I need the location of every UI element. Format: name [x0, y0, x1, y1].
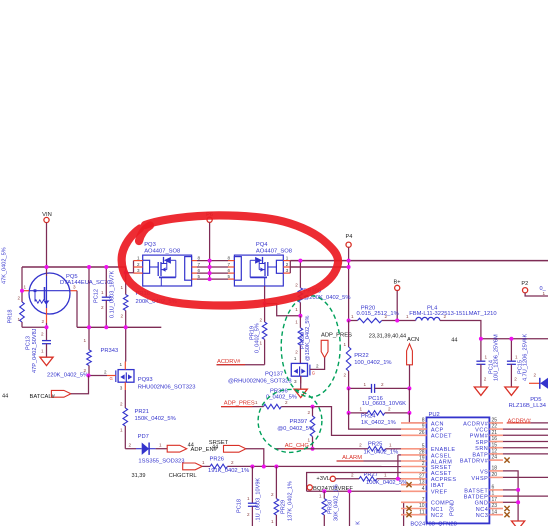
wire to ACP pin — [349, 413, 401, 429]
wire second bus segment — [290, 266, 348, 268]
svg-text:PR29: PR29 — [281, 500, 287, 514]
svg-text:7: 7 — [422, 497, 425, 503]
svg-text:1: 1 — [384, 472, 387, 477]
svg-text:1: 1 — [307, 438, 310, 443]
svg-text:PD7: PD7 — [138, 434, 149, 440]
svg-text:2: 2 — [17, 296, 20, 301]
wire P2 to edge — [525, 293, 548, 296]
svg-text:RHU002N06_SOT323: RHU002N06_SOT323 — [138, 385, 196, 391]
svg-text:8: 8 — [228, 255, 231, 260]
svg-text:22: 22 — [492, 424, 498, 430]
svg-text:2: 2 — [351, 472, 354, 477]
svg-text:PU2: PU2 — [429, 412, 440, 418]
connector CHGCTRL — [183, 463, 203, 470]
svg-text:2: 2 — [307, 410, 310, 415]
pin stubs PQ3 right and drain wires — [192, 260, 197, 262]
svg-text:ACN: ACN — [407, 337, 419, 343]
svg-text:1: 1 — [351, 314, 354, 319]
svg-text:8: 8 — [198, 255, 201, 260]
resistor PR343 — [88, 267, 90, 350]
svg-text:2: 2 — [295, 283, 298, 288]
svg-text:PR397: PR397 — [290, 419, 308, 425]
svg-text:.1U_0603_10V9K: .1U_0603_10V9K — [256, 478, 262, 522]
wire PQ4 source vertical — [289, 261, 291, 274]
wire VREF row — [307, 490, 401, 492]
wire PQ93 gate node — [89, 375, 108, 377]
svg-text:2: 2 — [104, 370, 107, 375]
svg-text:191K_0402_1%: 191K_0402_1% — [208, 468, 249, 474]
svg-text:BATDRV#: BATDRV# — [460, 459, 489, 465]
wire SRP out — [503, 441, 548, 443]
green highlight ellipse upper — [281, 296, 340, 397]
svg-text:P2: P2 — [521, 281, 528, 287]
connector ADP_EN# — [167, 445, 187, 452]
svg-text:1: 1 — [515, 355, 518, 360]
MOSFET PQ3 AO4407_SO8 — [143, 255, 192, 286]
capacitor PC15 — [510, 339, 512, 361]
wire BATCAL# to gate node — [71, 376, 89, 394]
svg-text:0.1U_0603_16V7K: 0.1U_0603_16V7K — [110, 270, 116, 318]
svg-text:PQ3: PQ3 — [144, 242, 156, 248]
svg-text:5: 5 — [228, 274, 231, 279]
wire output bus right — [290, 260, 548, 262]
svg-text:2: 2 — [381, 382, 384, 387]
wire ACSEL riser — [397, 455, 399, 479]
svg-text:DTA144EUA_SC70: DTA144EUA_SC70 — [60, 280, 110, 286]
svg-text:20: 20 — [492, 472, 498, 478]
svg-text:28: 28 — [419, 450, 425, 456]
resistor PR397 — [312, 407, 314, 416]
svg-text:1: 1 — [247, 496, 250, 501]
pin stubs PQ4 right — [283, 260, 290, 262]
diode PD5 RLZ16B_LL34 — [529, 382, 540, 384]
svg-text:2: 2 — [137, 262, 140, 267]
svg-text:PR21: PR21 — [135, 409, 150, 415]
svg-text:VREF: VREF — [431, 490, 448, 496]
svg-text:1: 1 — [295, 307, 298, 312]
svg-text:ACSEL: ACSEL — [431, 453, 452, 459]
svg-text:3: 3 — [294, 379, 297, 384]
svg-text:44: 44 — [451, 338, 457, 344]
svg-text:9: 9 — [422, 424, 425, 430]
wire SRN out — [503, 447, 548, 449]
svg-text:1: 1 — [24, 285, 27, 290]
svg-text:1K_0402_1%: 1K_0402_1% — [361, 420, 396, 426]
svg-text:220K_0402_5%: 220K_0402_5% — [47, 373, 88, 379]
svg-text:PQ5: PQ5 — [66, 274, 78, 280]
svg-text:7: 7 — [228, 262, 231, 267]
svg-text:17: 17 — [492, 497, 498, 503]
svg-text:ADP_PRES: ADP_PRES — [224, 401, 255, 407]
svg-text:1: 1 — [271, 519, 274, 524]
svg-text:PR24: PR24 — [361, 414, 376, 420]
svg-text:2: 2 — [231, 460, 234, 465]
svg-text:ALARM: ALARM — [342, 455, 362, 461]
svg-text:ACP: ACP — [431, 428, 444, 434]
svg-text:PQ137: PQ137 — [265, 371, 283, 377]
svg-text:2: 2 — [271, 492, 274, 497]
wire SRSET to CHGCTRL rail — [246, 449, 264, 467]
svg-text:6: 6 — [228, 268, 231, 273]
resistor PR21 — [124, 390, 126, 408]
svg-text:K: K — [356, 521, 362, 525]
wire PQ137 source to ground — [300, 376, 302, 389]
svg-text:2: 2 — [533, 373, 536, 378]
net label ACDRV# at pin 25 — [507, 422, 531, 424]
svg-text:10: 10 — [419, 503, 425, 509]
wire VIN to bus — [46, 223, 48, 267]
resistor PR25 — [313, 448, 368, 450]
svg-text:COMP: COMP — [431, 501, 450, 507]
svg-text:2: 2 — [120, 402, 123, 407]
wire VREF branch to bottom component — [349, 491, 351, 526]
svg-text:24: 24 — [492, 455, 498, 461]
svg-text:2: 2 — [247, 512, 250, 517]
svg-text:4.7U_1206_25V6K: 4.7U_1206_25V6K — [523, 333, 529, 381]
resistor PR26 — [202, 465, 210, 467]
wire P4 drop — [348, 247, 350, 320]
svg-text:1: 1 — [286, 255, 289, 260]
svg-text:CHGCTRL: CHGCTRL — [169, 473, 198, 479]
svg-text:0_0402_5%: 0_0402_5% — [266, 394, 297, 400]
svg-text:PC13: PC13 — [26, 336, 32, 350]
wire P6 to drain rows — [209, 222, 211, 279]
ground below PC14 — [474, 387, 487, 395]
svg-text:18: 18 — [492, 466, 498, 472]
svg-text:1: 1 — [83, 338, 86, 343]
svg-text:1SS355_SOD323: 1SS355_SOD323 — [138, 459, 184, 465]
resistor PR24 — [348, 388, 350, 413]
wire PQ3 source pins vertical — [133, 261, 135, 274]
svg-text:1: 1 — [295, 320, 298, 325]
svg-text:ACDRV#: ACDRV# — [217, 359, 241, 365]
wire PQ4 gate jog — [264, 286, 266, 304]
svg-text:NC3: NC3 — [476, 513, 489, 519]
wire ADP_PRES to PQ137 gate — [310, 358, 325, 370]
svg-text:25: 25 — [492, 418, 498, 424]
wire BATP out — [503, 453, 548, 455]
svg-text:1: 1 — [359, 407, 362, 412]
svg-text:44: 44 — [212, 445, 218, 451]
capacitor PC16 — [349, 387, 372, 389]
pin stubs PQ3 left — [134, 260, 143, 262]
resistor PR398 — [299, 261, 301, 288]
svg-text:FBM-L11-322513-151LMAT_1210: FBM-L11-322513-151LMAT_1210 — [409, 311, 496, 317]
svg-text:47K_0402_5%: 47K_0402_5% — [2, 247, 8, 284]
svg-text:11: 11 — [419, 509, 424, 515]
green highlight ellipse lower — [258, 389, 322, 452]
MOSFET PQ4 AO4407_SO8 — [234, 255, 283, 286]
svg-text:NC1: NC1 — [431, 507, 444, 513]
IC left pin stubs — [401, 422, 427, 424]
svg-text:AO4407_SO8: AO4407_SO8 — [256, 248, 292, 254]
svg-text:2: 2 — [359, 442, 362, 447]
capacitor PC13 — [46, 327, 48, 340]
svg-text:21: 21 — [492, 430, 498, 436]
svg-text:137K_0402_1%: 137K_0402_1% — [288, 481, 294, 521]
connector BATCAL# — [51, 390, 71, 397]
transistor PQ93 RHU002N06_SOT323 — [107, 362, 134, 391]
svg-text:1: 1 — [492, 491, 495, 497]
wire PQ5 collector to lower rail — [76, 291, 78, 328]
svg-text:2: 2 — [388, 407, 391, 412]
transistor PQ5 DTA144EUA_SC70 — [22, 267, 77, 327]
svg-text:PR22: PR22 — [354, 353, 369, 359]
svg-text:8: 8 — [422, 418, 425, 424]
svg-text:13: 13 — [419, 479, 425, 485]
svg-text:VCC: VCC — [475, 428, 488, 434]
wire ACSET from divider — [307, 473, 401, 492]
svg-text:SRP: SRP — [475, 440, 488, 446]
wire lower rail — [77, 326, 161, 328]
wire bus jog to PQ3 pin3 row — [126, 267, 134, 273]
svg-text:14: 14 — [492, 509, 498, 515]
svg-text:2: 2 — [101, 305, 104, 310]
svg-text:2: 2 — [316, 363, 319, 368]
svg-text:P4: P4 — [346, 234, 353, 240]
svg-text:VS: VS — [480, 469, 488, 475]
svg-text:23: 23 — [492, 503, 498, 509]
net label AC_CHG and wire to ENABLE — [275, 448, 312, 450]
svg-text:SRN: SRN — [475, 446, 488, 452]
ground below PC13 — [40, 357, 53, 365]
ground below PU2 — [512, 521, 525, 526]
svg-text:BATP: BATP — [472, 452, 488, 458]
node BQ24703VREF terminal — [307, 485, 312, 490]
svg-text:G: G — [312, 371, 315, 376]
wire to ACN pin — [409, 413, 426, 423]
wire PWM# out — [503, 434, 548, 436]
resistor PR399 — [299, 316, 301, 328]
svg-text:VHSP: VHSP — [471, 476, 488, 482]
svg-text:PWM#: PWM# — [470, 434, 489, 440]
wire VS BATSET GND to ground — [503, 471, 518, 521]
svg-text:AO4407_SO8: AO4407_SO8 — [144, 248, 180, 254]
ground below PC15 — [505, 387, 518, 395]
svg-text:G: G — [110, 376, 113, 381]
svg-text:IBAT: IBAT — [431, 483, 445, 489]
svg-text:1: 1 — [255, 400, 258, 405]
svg-text:@RHU002N06_SOT323: @RHU002N06_SOT323 — [228, 379, 292, 385]
svg-text:ACDET: ACDET — [431, 434, 452, 440]
inductor PL4 FBM-L11 — [416, 317, 440, 320]
svg-text:150K_0402_5%: 150K_0402_5% — [135, 416, 176, 422]
svg-text:1: 1 — [119, 362, 122, 367]
svg-text:ACDRV#: ACDRV# — [463, 421, 489, 427]
svg-text:PGND: PGND — [450, 500, 456, 516]
svg-text:3: 3 — [120, 386, 123, 391]
no-connect X marks — [406, 482, 411, 487]
svg-text:1: 1 — [543, 291, 546, 296]
svg-text:RLZ16B_LL34: RLZ16B_LL34 — [509, 403, 547, 409]
svg-text:16: 16 — [492, 436, 498, 442]
svg-text:@0_0402_5%: @0_0402_5% — [277, 426, 314, 432]
svg-text:2: 2 — [514, 377, 517, 382]
capacitor PC12 — [105, 267, 107, 297]
svg-text:PQ4: PQ4 — [256, 242, 268, 248]
IC right pin stubs — [489, 422, 503, 424]
svg-text:BQ24703_QFN28: BQ24703_QFN28 — [410, 522, 456, 526]
svg-text:ACSET: ACSET — [431, 471, 452, 477]
svg-text:1: 1 — [101, 290, 104, 295]
svg-text:PR18: PR18 — [8, 310, 14, 324]
red marker annotation circle — [122, 215, 338, 305]
net label ALARM wire — [337, 460, 401, 462]
resistor PR20 current sense — [349, 320, 358, 322]
resistor PR27 — [335, 478, 359, 480]
svg-text:2: 2 — [42, 319, 45, 324]
wire VHSP out — [503, 476, 548, 478]
junction dots on CHGCTRL rail — [250, 465, 254, 469]
svg-text:5: 5 — [198, 274, 201, 279]
svg-text:2: 2 — [295, 350, 298, 355]
svg-text:ENABLE: ENABLE — [431, 447, 456, 453]
svg-text:1K_0402_1%: 1K_0402_1% — [364, 450, 399, 456]
wire bus corner down to PR18 branch — [21, 267, 23, 291]
svg-text:1: 1 — [137, 255, 140, 260]
resistor PR396 — [264, 404, 282, 409]
svg-text:2: 2 — [128, 442, 131, 447]
svg-text:PQ93: PQ93 — [138, 377, 153, 383]
svg-text:3: 3 — [137, 268, 140, 273]
svg-text:PR26: PR26 — [210, 456, 225, 462]
svg-text:ADP_PRES: ADP_PRES — [321, 333, 352, 339]
svg-text:1: 1 — [294, 356, 297, 361]
wire COMP branch — [401, 502, 404, 526]
svg-text:6: 6 — [198, 268, 201, 273]
svg-text:44: 44 — [2, 394, 8, 400]
capacitor PC14 — [480, 339, 482, 361]
svg-text:2: 2 — [41, 332, 44, 337]
svg-text:3: 3 — [286, 268, 289, 273]
wire ACN arrow to filter — [409, 365, 411, 389]
ground below PQ137 — [294, 389, 307, 397]
connector SRSET — [224, 445, 246, 452]
wire main bus (VIN rail) — [22, 266, 126, 268]
net label ACDRV# left — [217, 364, 265, 366]
IC PU2 BQ24703_QFN28 — [427, 417, 490, 523]
resistor PR22 — [348, 321, 350, 348]
resistor PR30 — [323, 491, 325, 498]
svg-text:12: 12 — [492, 449, 498, 455]
svg-text:4: 4 — [422, 486, 425, 492]
svg-text:PR25: PR25 — [368, 441, 383, 447]
svg-text:1: 1 — [363, 382, 366, 387]
junction dots main buses — [45, 265, 49, 269]
transistor PQ137 RHU002N06_SOT323 — [291, 363, 310, 383]
svg-text:0.015_2512_1%: 0.015_2512_1% — [357, 311, 399, 317]
svg-text:2: 2 — [286, 262, 289, 267]
wire PR16 rail to PQ93 drain — [125, 327, 127, 361]
svg-text:15: 15 — [492, 442, 498, 448]
svg-text:47P_0402_50V8J: 47P_0402_50V8J — [32, 328, 38, 373]
svg-text:6: 6 — [492, 485, 495, 491]
svg-text:1: 1 — [41, 349, 44, 354]
svg-text:5: 5 — [422, 443, 425, 449]
svg-text:PC12: PC12 — [94, 289, 100, 303]
resistor PR19 — [264, 304, 266, 322]
svg-text:10U_1206_25V6M: 10U_1206_25V6M — [494, 334, 500, 381]
svg-text:2: 2 — [120, 314, 123, 319]
diode PD7 1SS355_SOD323 — [125, 448, 136, 450]
svg-text:1: 1 — [485, 355, 488, 360]
svg-text:7: 7 — [198, 262, 201, 267]
svg-text:1: 1 — [159, 442, 162, 447]
wire BATDEP out — [503, 495, 548, 497]
wire VCC out — [503, 428, 548, 430]
svg-text:VIN: VIN — [42, 212, 52, 218]
svg-text:2: 2 — [343, 373, 346, 378]
svg-text:NC2: NC2 — [431, 513, 444, 519]
svg-text:26: 26 — [419, 430, 425, 436]
svg-text:1: 1 — [319, 494, 322, 499]
resistor PR16 — [125, 273, 127, 295]
svg-text:100_0402_1%: 100_0402_1% — [354, 360, 391, 366]
svg-text:NC4: NC4 — [476, 507, 489, 513]
svg-text:3: 3 — [422, 467, 425, 473]
svg-text:1: 1 — [120, 285, 123, 290]
svg-text:BATCAL#: BATCAL# — [30, 394, 56, 400]
svg-text:1: 1 — [202, 460, 205, 465]
svg-text:BATSET: BATSET — [464, 488, 488, 494]
wire PL4 out to cap rail — [440, 321, 548, 339]
svg-text:ACDRV#: ACDRV# — [508, 418, 532, 424]
resistor PR29 — [275, 467, 277, 499]
svg-text:1: 1 — [343, 342, 346, 347]
svg-text:1: 1 — [120, 428, 123, 433]
svg-text:1: 1 — [389, 442, 392, 447]
svg-text:2: 2 — [259, 318, 262, 323]
svg-text:+3VL: +3VL — [316, 476, 330, 482]
resistor PR18 — [21, 291, 23, 302]
svg-text:GND: GND — [475, 501, 489, 507]
svg-text:PR343: PR343 — [101, 348, 119, 354]
svg-text:31,39: 31,39 — [132, 473, 146, 479]
svg-text:1: 1 — [17, 317, 20, 322]
wire ADP_PRES row to ACDET — [313, 407, 402, 436]
svg-text:23,31,39,40,44: 23,31,39,40,44 — [369, 333, 406, 339]
svg-text:BATDEP: BATDEP — [464, 495, 489, 501]
svg-text:1U_0603_10V6K: 1U_0603_10V6K — [362, 401, 406, 407]
capacitor PC18 — [251, 467, 253, 504]
svg-text:2: 2 — [285, 400, 288, 405]
svg-text:@150K_0402_5%: @150K_0402_5% — [305, 315, 311, 361]
svg-text:30K_0402_1%: 30K_0402_1% — [334, 484, 340, 521]
wire B+ drop — [396, 291, 398, 321]
svg-text:ACN: ACN — [431, 421, 444, 427]
svg-text:2: 2 — [484, 377, 487, 382]
node VIN terminal — [44, 217, 49, 222]
svg-text:0_0402_5%: 0_0402_5% — [255, 323, 261, 353]
svg-text:PC18: PC18 — [237, 499, 243, 513]
